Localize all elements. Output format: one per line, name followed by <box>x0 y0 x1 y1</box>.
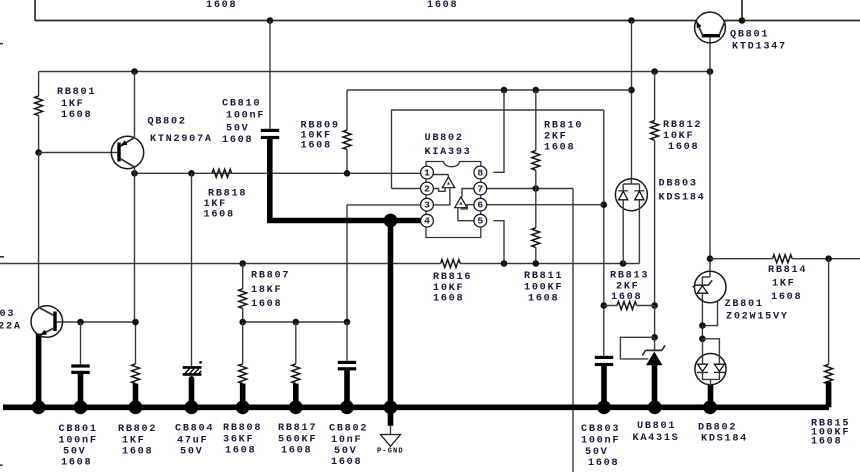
resistor RB817 stub <box>293 384 299 408</box>
wire top rail left segment <box>35 20 696 22</box>
wire pin3 lead <box>347 204 421 206</box>
node bus CB804 <box>185 400 199 414</box>
wire RB815 upper lead <box>828 259 830 365</box>
wire QB802 emitter vertical <box>134 72 136 138</box>
wire second rail y71 <box>39 71 710 73</box>
shunt regulator UB801 <box>642 345 665 365</box>
resistor RB807 <box>242 264 244 289</box>
svg-text:1608: 1608 <box>331 457 362 468</box>
node RB809 bottom junction <box>344 170 351 177</box>
svg-text:KA431S: KA431S <box>633 433 680 444</box>
svg-text:1608: 1608 <box>427 0 458 11</box>
node pin6 junction <box>601 201 608 208</box>
svg-text:KDS184: KDS184 <box>701 434 748 445</box>
wire UB801 cathode lead <box>654 337 656 350</box>
node QB802 base junction <box>35 149 42 156</box>
svg-text:36KF: 36KF <box>223 435 254 446</box>
svg-text:KTD1347: KTD1347 <box>732 42 787 53</box>
node RB810 top junction <box>533 87 540 94</box>
svg-text:1KF: 1KF <box>204 199 228 210</box>
svg-text:Z02W15VY: Z02W15VY <box>726 312 789 323</box>
op-amp U1 comparator A triangle <box>442 177 454 188</box>
pin 5 <box>474 214 487 227</box>
wire RB802 upper lead <box>135 322 137 364</box>
svg-text:1608: 1608 <box>668 142 699 153</box>
wire feedback loop y110 <box>392 110 604 189</box>
wire thick vertical to bus <box>388 221 394 408</box>
svg-text:1608: 1608 <box>588 458 619 469</box>
svg-text:QB802: QB802 <box>148 117 187 128</box>
svg-text:6: 6 <box>477 200 483 211</box>
svg-text:P-GND: P-GND <box>377 448 404 456</box>
node bus CB802 <box>340 400 354 414</box>
resistor RB815 <box>825 364 833 384</box>
op-amp U1 comparator IC UB802 outline <box>426 162 481 238</box>
svg-text:UB801: UB801 <box>637 421 676 432</box>
svg-text:3: 3 <box>424 200 430 211</box>
wire x573 long vertical <box>572 189 574 472</box>
resistor RB802 stub <box>133 384 139 408</box>
svg-text:RB802: RB802 <box>118 424 157 435</box>
wire RB809 bottom lead <box>346 150 348 174</box>
node CB802 top junction <box>344 319 351 326</box>
svg-text:RB816: RB816 <box>433 272 472 283</box>
svg-text:1608: 1608 <box>811 437 842 448</box>
svg-text:CB803: CB803 <box>581 424 620 435</box>
resistor RB801 <box>35 96 43 116</box>
svg-text:1KF: 1KF <box>61 99 85 110</box>
node QB802 emitter junction <box>131 68 138 75</box>
resistor RB808 stub <box>240 384 246 408</box>
node QB802 collector junction <box>131 170 138 177</box>
wire QB802 base lead <box>39 152 118 154</box>
capacitor CB802 <box>338 361 356 408</box>
svg-text:10KF: 10KF <box>433 283 464 294</box>
node ZB801 top junction <box>707 255 714 262</box>
svg-text:2: 2 <box>424 184 430 195</box>
svg-text:ZB801: ZB801 <box>725 299 764 310</box>
wire CB810 top lead <box>269 21 271 129</box>
svg-text:1KF: 1KF <box>122 436 146 447</box>
wire left edge fragment y43 <box>0 43 3 45</box>
wire QB801 base vertical <box>709 37 711 71</box>
svg-text:RB814: RB814 <box>768 265 807 276</box>
resistor RB818 <box>212 169 232 177</box>
wire CB801 upper lead <box>80 322 82 364</box>
node bus QB803 <box>32 400 46 414</box>
svg-text:1608: 1608 <box>61 110 92 121</box>
svg-text:1: 1 <box>424 168 430 179</box>
node RB807 top junction <box>239 260 246 267</box>
svg-text:1608: 1608 <box>225 446 256 457</box>
pin 6 <box>474 198 487 211</box>
node bus DB802 <box>703 400 717 414</box>
wire pin2 lead <box>392 188 421 190</box>
resistor RB813 <box>604 305 617 307</box>
node RB802 top junction <box>132 319 139 326</box>
svg-text:KDS184: KDS184 <box>659 193 706 204</box>
wire pin6 vertical x603.8 down to CB803 <box>603 110 605 356</box>
transistor QB801 <box>695 12 726 43</box>
wire RB813 to UB801 node <box>654 306 656 338</box>
node UB801 cathode junction <box>651 334 658 341</box>
node bus P-GND <box>384 400 398 414</box>
wire divider rail y322 <box>243 321 347 323</box>
svg-text:7: 7 <box>477 184 483 195</box>
wire pin8 supply lead <box>494 90 505 172</box>
node thick output big junction <box>384 214 398 228</box>
svg-text:18KF: 18KF <box>251 285 282 296</box>
svg-text:1608: 1608 <box>61 458 92 469</box>
wire RB817 upper lead <box>295 322 297 364</box>
wire pin7 internal <box>462 189 474 198</box>
wire UB801 reference loop <box>620 337 654 359</box>
resistor RB816 <box>441 260 461 268</box>
svg-text:10nF: 10nF <box>331 435 362 446</box>
wire top rail entry vertical <box>34 0 36 21</box>
svg-text:1608: 1608 <box>771 292 802 303</box>
node RB813 right junction <box>651 302 658 309</box>
wire pin1 rail y173 <box>135 172 421 174</box>
svg-text:1608: 1608 <box>122 447 153 458</box>
wire pin7 lead to x573 <box>487 188 573 190</box>
pin 4 <box>421 214 434 227</box>
node y90 rail right end <box>628 87 635 94</box>
svg-text:CB810: CB810 <box>222 99 261 110</box>
node top rail right junction <box>739 17 746 24</box>
svg-text:1608: 1608 <box>222 135 253 146</box>
pin 8 <box>474 166 487 179</box>
capacitor CB801 <box>71 364 89 407</box>
wire ground bus <box>3 404 829 410</box>
svg-text:UB802: UB802 <box>425 133 464 144</box>
svg-text:1608: 1608 <box>251 299 282 310</box>
shunt regulator UB801 stub <box>652 365 658 408</box>
wire thick CB810 output trace <box>270 139 391 221</box>
wire thick to pin4 <box>391 218 421 224</box>
svg-text:RB810: RB810 <box>544 121 583 132</box>
pin 1 <box>421 166 434 179</box>
svg-text:DB803: DB803 <box>659 179 698 190</box>
diode DB803 <box>615 179 647 264</box>
svg-text:100nF: 100nF <box>59 436 98 447</box>
svg-text:1608: 1608 <box>206 0 237 11</box>
ground symbol P-GND <box>381 426 401 447</box>
resistor RB802 <box>132 364 140 384</box>
svg-text:RB811: RB811 <box>524 271 563 282</box>
svg-text:KIA393: KIA393 <box>425 147 472 158</box>
svg-text:50V: 50V <box>226 124 250 135</box>
resistor RB809 <box>343 130 351 150</box>
wire x710 down to ZB801 <box>709 72 711 278</box>
wire left edge fragment y257 <box>0 256 4 258</box>
wire RB808 upper lead <box>242 322 244 364</box>
node bus CB803 <box>597 400 611 414</box>
resistor RB817 <box>292 364 300 384</box>
pin 3 <box>421 198 434 211</box>
resistor RB810 <box>535 90 537 151</box>
svg-text:DB802: DB802 <box>698 423 737 434</box>
wire DB803 top vertical <box>631 21 633 179</box>
svg-text:RB812: RB812 <box>663 120 702 131</box>
wire pin2 internal <box>433 188 445 192</box>
svg-text:1608: 1608 <box>204 210 235 221</box>
wire top-right vertical drop <box>741 0 743 21</box>
svg-text:RB807: RB807 <box>251 271 290 282</box>
svg-text:50V: 50V <box>180 447 204 458</box>
resistor RB811 <box>535 189 537 228</box>
svg-text:1608: 1608 <box>281 446 312 457</box>
node bus RB808 <box>236 400 250 414</box>
node RB815 top junction <box>825 255 832 262</box>
node top rail CB810 junction <box>267 17 274 24</box>
svg-text:RB817: RB817 <box>278 423 317 434</box>
wire y90 rail <box>347 89 632 91</box>
wire pin3 vertical <box>346 205 348 322</box>
pin 2 <box>421 182 434 195</box>
svg-text:1608: 1608 <box>544 143 575 154</box>
svg-text:8: 8 <box>477 168 483 179</box>
node DB803 cathode junction <box>620 260 627 267</box>
wire CB802 upper lead <box>346 322 348 361</box>
capacitor CB803 <box>595 356 613 408</box>
svg-text:100nF: 100nF <box>226 111 265 122</box>
svg-text:QB801: QB801 <box>730 30 769 41</box>
transistor QB803 <box>31 306 63 338</box>
node RB817 top junction <box>293 319 300 326</box>
node QB801 base junction <box>707 68 714 75</box>
svg-text:KTN2907A: KTN2907A <box>150 134 213 145</box>
svg-text:4: 4 <box>424 216 430 227</box>
svg-text:1608: 1608 <box>611 292 642 303</box>
node RB810 bottom junction <box>533 185 540 192</box>
svg-text:KTN2222A: KTN2222A <box>0 322 22 333</box>
node bus UB801 <box>648 400 662 414</box>
svg-text:1KF: 1KF <box>772 279 796 290</box>
svg-text:50V: 50V <box>334 446 358 457</box>
transistor QB802 <box>111 136 143 168</box>
node pin8 supply junction <box>501 87 508 94</box>
svg-text:2KF: 2KF <box>616 282 640 293</box>
node RB811 bottom junction <box>533 260 540 267</box>
wire x134.5 down to QB803 base rail <box>134 173 136 322</box>
ground P-GND stub <box>388 407 394 426</box>
capacitor CB810 <box>261 129 279 139</box>
node bus RB817 <box>289 400 303 414</box>
wire RB801 bottom to QB802 base node <box>38 116 40 153</box>
svg-text:RB808: RB808 <box>223 423 262 434</box>
svg-text:2KF: 2KF <box>544 132 568 143</box>
svg-text:50V: 50V <box>63 447 87 458</box>
wire ground-sense rail y263.5 <box>0 263 441 265</box>
diode DB802 stub <box>708 385 714 408</box>
svg-text:RB813: RB813 <box>610 271 649 282</box>
wire QB803 base rail <box>57 321 136 323</box>
capacitor CB804 electrolytic <box>183 361 202 407</box>
node RB813 left junction <box>601 302 608 309</box>
wire pin1 internal <box>433 175 448 178</box>
resistor RB815 stub and bus end <box>826 382 832 408</box>
svg-text:QB803: QB803 <box>0 309 15 320</box>
wire pin5 lead <box>494 221 505 264</box>
transistor QB803 emitter thick lead <box>36 334 42 408</box>
pin 7 <box>474 182 487 195</box>
svg-text:RB801: RB801 <box>57 87 96 98</box>
svg-text:100KF: 100KF <box>524 283 563 294</box>
node RB812 top junction <box>651 68 658 75</box>
wire QB802 collector vertical <box>134 167 136 173</box>
resistor RB814 <box>773 255 793 263</box>
svg-text:1608: 1608 <box>301 141 332 152</box>
wire left edge fragment bottom <box>0 464 3 466</box>
svg-text:47uF: 47uF <box>177 436 208 447</box>
diode DB802 <box>695 339 726 385</box>
wire CB804 vertical <box>191 173 193 366</box>
node bus CB801 <box>74 400 88 414</box>
svg-text:CB801: CB801 <box>59 424 98 435</box>
svg-text:1608: 1608 <box>433 294 464 305</box>
svg-text:CB804: CB804 <box>175 424 214 435</box>
wire pin5 internal <box>458 208 474 221</box>
node top rail DB803 junction <box>628 17 635 24</box>
wire RB814 rail y258.7 <box>710 258 773 260</box>
wire top rail right segment <box>724 20 860 22</box>
node CB801 top junction <box>77 319 84 326</box>
svg-text:5: 5 <box>477 216 483 227</box>
svg-text:10KF: 10KF <box>663 131 694 142</box>
wire pin6 lead <box>487 204 604 206</box>
node RB807 bottom junction <box>239 319 246 326</box>
wire left vertical down to QB803 collector <box>38 153 40 308</box>
zener ZB801 <box>693 271 726 342</box>
wire rail y263.5 right part <box>460 263 639 265</box>
svg-text:560KF: 560KF <box>278 435 317 446</box>
node bus RB802 <box>129 400 143 414</box>
resistor RB812 <box>654 72 656 121</box>
svg-text:50V: 50V <box>585 447 609 458</box>
wire RB801 branch <box>38 72 40 97</box>
op-amp U1 comparator B triangle <box>455 197 467 208</box>
wire RB809 top lead <box>346 90 348 130</box>
svg-text:100nF: 100nF <box>581 436 620 447</box>
resistor RB808 <box>239 364 247 384</box>
svg-text:1608: 1608 <box>528 294 559 305</box>
svg-text:RB818: RB818 <box>208 189 247 200</box>
wire pin6 internal <box>461 205 474 209</box>
node CB804 branch junction <box>188 170 195 177</box>
wire pin3 internal <box>433 188 450 205</box>
node pin5 bottom junction <box>501 260 508 267</box>
svg-text:CB802: CB802 <box>329 424 368 435</box>
